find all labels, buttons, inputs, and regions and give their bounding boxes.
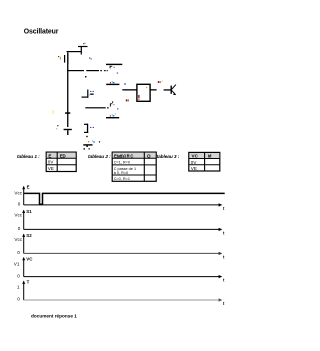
svg-text:Vcc: Vcc (14, 190, 22, 195)
svg-text:Vcc: Vcc (14, 213, 22, 218)
svg-text:Id: Id (208, 154, 212, 159)
svg-text:VE: VE (48, 166, 54, 171)
chronogram E axis (14, 184, 225, 211)
wire (horizontal dashed row 1) (67, 70, 108, 71)
svg-text:document réponse 1: document réponse 1 (31, 314, 77, 319)
logic block U1 (137, 84, 150, 101)
table 1 label (17, 154, 40, 160)
blue node label (89, 58, 92, 60)
dark red quote marks (126, 99, 129, 101)
component bar F1 (top plate) (106, 64, 122, 65)
junction dot (85, 76, 87, 78)
svg-text:0: 0 (17, 297, 20, 302)
ground bar (masse 1) (106, 81, 119, 85)
svg-text:0: 0 (18, 226, 21, 231)
capacitor C2 / ground terminal (56, 125, 72, 135)
svg-text:tableau 2 :: tableau 2 : (88, 154, 111, 160)
svg-text:E: E (48, 153, 51, 158)
label F2 (110, 101, 115, 106)
svg-text:T: T (27, 280, 30, 285)
wire (top horizontal to supply) (67, 51, 82, 52)
svg-text:1: 1 (17, 285, 20, 290)
table 2 label (88, 154, 111, 160)
svg-text:tableau 3 :: tableau 3 : (157, 154, 180, 160)
wire from logic block (150, 89, 156, 90)
svg-text:Oscillateur: Oscillateur (24, 29, 59, 36)
chronogram T axis (17, 280, 225, 306)
svg-text:S1: S1 (26, 209, 32, 214)
svg-text:E: E (27, 184, 30, 189)
wire to logic block (122, 89, 137, 90)
table 3 (189, 152, 220, 171)
ground bar (masse 2) (106, 113, 119, 118)
chronogram VC axis (14, 256, 225, 282)
svg-text:0V: 0V (48, 160, 55, 165)
svg-text:Vcc: Vcc (14, 237, 22, 242)
table 1 (46, 152, 76, 171)
svg-text:Etat(s) R C: Etat(s) R C (114, 153, 133, 158)
svg-text:0: 0 (17, 273, 20, 278)
svg-text:V1: V1 (14, 261, 20, 266)
title Oscillateur (24, 29, 59, 36)
svg-text:à 0, R=0: à 0, R=0 (114, 171, 128, 175)
dark red label marks (158, 81, 163, 83)
svg-text:tableau 1 :: tableau 1 : (17, 154, 40, 160)
svg-text:0: 0 (17, 250, 20, 255)
svg-text:VC: VC (26, 256, 33, 261)
svg-text:ED: ED (60, 153, 66, 158)
label F1 (110, 66, 115, 69)
bracket switch symbol (82, 90, 94, 98)
svg-text:S2: S2 (26, 233, 32, 238)
blue terminal dot (124, 83, 125, 84)
wire (horizontal row 2) (85, 107, 108, 108)
svg-text:0: 0 (18, 202, 21, 207)
waveform E (24, 193, 225, 204)
footer document reponse (31, 314, 77, 319)
chronogram S1 axis (14, 209, 225, 236)
svg-text:C=0, R=1: C=0, R=1 (114, 177, 130, 181)
transistor Q1 (164, 85, 176, 96)
wire (main vertical) (67, 64, 68, 127)
svg-text:VE: VE (191, 166, 197, 171)
yellow speck (52, 110, 55, 114)
chronogram S2 axis (14, 233, 225, 260)
svg-text:VC: VC (192, 154, 199, 159)
power supply +Vcc (78, 43, 88, 55)
blue node dot 2 (117, 108, 118, 109)
tick on vertical wire (65, 112, 70, 114)
table 2 (112, 152, 156, 181)
svg-text:C=1, R=0: C=1, R=0 (114, 160, 130, 164)
bottom component cluster (83, 140, 100, 149)
svg-text:Q: Q (147, 153, 151, 158)
bracket symbol 2 (84, 124, 94, 138)
capacitor C1 (58, 52, 68, 64)
blue node dot (117, 72, 118, 73)
table 3 label (157, 154, 180, 160)
svg-text:0V: 0V (191, 160, 198, 165)
